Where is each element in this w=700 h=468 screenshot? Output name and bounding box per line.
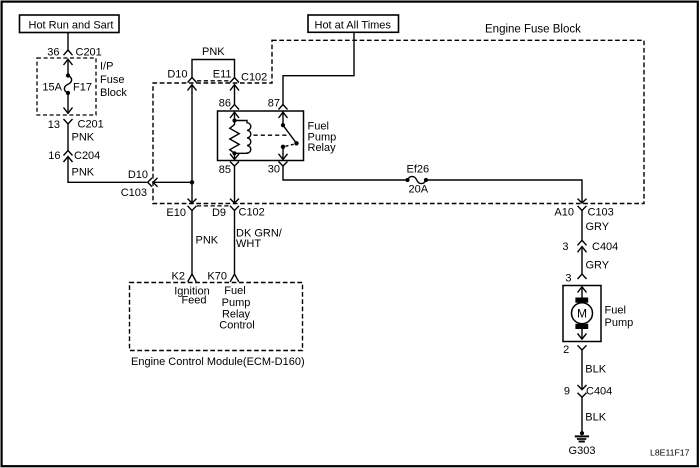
svg-text:D10: D10 bbox=[167, 69, 187, 81]
svg-text:PNK: PNK bbox=[72, 132, 95, 144]
svg-text:Control: Control bbox=[219, 320, 254, 332]
relay coil resistor zigzag bbox=[230, 121, 239, 154]
svg-text:Fuse: Fuse bbox=[100, 74, 124, 86]
wire PNK to K2 bbox=[192, 211, 219, 274]
svg-text:Pump: Pump bbox=[605, 317, 634, 329]
wire pin 30 down and right to fuse Ef26 bbox=[283, 166, 406, 180]
svg-text:D9: D9 bbox=[212, 207, 226, 219]
svg-text:G303: G303 bbox=[569, 445, 596, 457]
relay coil junction top dot bbox=[232, 118, 236, 122]
svg-text:C103: C103 bbox=[588, 206, 614, 218]
I/P fuse block dashed box bbox=[37, 58, 96, 115]
wire PNK down and right to C103 bbox=[68, 158, 147, 183]
svg-text:Hot Run and Sart: Hot Run and Sart bbox=[29, 20, 114, 32]
ground G303 bbox=[569, 431, 596, 457]
wire fuse to right and down to A10 bbox=[428, 180, 583, 203]
wire D10 vertical down to E10 bbox=[191, 86, 193, 204]
wire DK GRN/WHT to K70 bbox=[235, 211, 283, 274]
svg-text:BLK: BLK bbox=[585, 364, 606, 376]
Engine Fuse Block dashed boundary bbox=[153, 40, 644, 203]
label Fuel Pump bbox=[605, 305, 634, 329]
connector E11 C102 bbox=[213, 69, 268, 91]
ECM pin K70 bbox=[207, 271, 238, 283]
connector A10 C103 bbox=[554, 199, 613, 219]
svg-text:C102: C102 bbox=[241, 72, 267, 84]
ECM dashed box bbox=[130, 283, 303, 351]
ECM pin K2 bbox=[172, 271, 197, 283]
connector 9 C404 bbox=[564, 385, 612, 397]
svg-text:85: 85 bbox=[219, 164, 231, 176]
relay switch bbox=[281, 123, 299, 149]
wire PNK bridge over C102 bbox=[192, 46, 235, 78]
svg-text:M: M bbox=[577, 306, 587, 320]
svg-text:E10: E10 bbox=[166, 207, 186, 219]
svg-text:C201: C201 bbox=[78, 119, 104, 131]
svg-text:GRY: GRY bbox=[586, 221, 610, 233]
svg-text:E11: E11 bbox=[213, 69, 232, 81]
svg-text:Relay: Relay bbox=[222, 309, 251, 321]
svg-text:86: 86 bbox=[219, 98, 231, 110]
svg-text:20A: 20A bbox=[409, 184, 429, 196]
relay coil junction bottom dot bbox=[232, 151, 236, 155]
label I/P Fuse Block bbox=[100, 61, 127, 100]
pump pin 2 bbox=[563, 344, 586, 356]
svg-text:9: 9 bbox=[564, 385, 570, 397]
svg-text:Ef26: Ef26 bbox=[407, 164, 430, 176]
connector D10 C102 bbox=[167, 69, 196, 91]
connector 3 C404 bbox=[562, 240, 618, 253]
svg-text:PNK: PNK bbox=[72, 167, 95, 179]
svg-text:Relay: Relay bbox=[308, 142, 337, 154]
pump pin 3 bbox=[565, 273, 586, 285]
svg-text:C404: C404 bbox=[592, 241, 618, 253]
node Hot Run and Sart box bbox=[20, 15, 120, 33]
svg-text:L8E11F17: L8E11F17 bbox=[650, 447, 690, 457]
wire PNK label bbox=[68, 124, 95, 151]
connector 16 C204 bbox=[48, 150, 100, 162]
svg-text:15A: 15A bbox=[42, 82, 62, 94]
wire GRY bbox=[582, 211, 610, 241]
svg-text:D10: D10 bbox=[128, 169, 148, 181]
junction dot at D10 vertical bbox=[190, 180, 194, 184]
relay pin 85 bbox=[219, 153, 239, 176]
relay pin 87 bbox=[268, 98, 288, 125]
svg-text:Pump: Pump bbox=[222, 297, 251, 309]
label Fuel Pump Relay Control bbox=[219, 285, 254, 332]
connector D10 C103 horizontal bbox=[121, 169, 192, 199]
svg-text:Fuel: Fuel bbox=[224, 285, 245, 297]
svg-text:PNK: PNK bbox=[202, 46, 225, 58]
connector C102 link dashes bottom row bbox=[197, 205, 230, 207]
svg-text:GRY: GRY bbox=[586, 259, 610, 271]
svg-text:K2: K2 bbox=[172, 271, 185, 283]
svg-text:F17: F17 bbox=[73, 82, 92, 94]
svg-text:C103: C103 bbox=[121, 187, 147, 199]
svg-text:87: 87 bbox=[268, 98, 280, 110]
connector 13 C201 bbox=[48, 119, 104, 132]
label Fuel Pump Relay bbox=[308, 121, 337, 154]
relay box U1 bbox=[218, 111, 304, 161]
svg-text:16: 16 bbox=[48, 150, 60, 162]
svg-text:3: 3 bbox=[565, 273, 571, 285]
svg-text:WHT: WHT bbox=[236, 238, 261, 250]
svg-text:K70: K70 bbox=[207, 271, 227, 283]
wire pin 85 down to D9 bbox=[234, 166, 236, 203]
svg-text:13: 13 bbox=[48, 119, 60, 131]
connector 36 C201 bbox=[47, 47, 102, 76]
label Ignition Feed bbox=[174, 286, 209, 307]
wire BLK to ground bbox=[582, 397, 607, 433]
dashed actuation link bbox=[254, 134, 289, 136]
svg-text:I/P: I/P bbox=[100, 61, 113, 73]
svg-text:3: 3 bbox=[562, 241, 568, 253]
relay coil winding bbox=[235, 121, 251, 154]
svg-text:Engine Control Module(ECM-D160: Engine Control Module(ECM-D160) bbox=[131, 356, 305, 368]
fuse Ef26 20A bbox=[405, 164, 429, 196]
relay pin 86 bbox=[219, 98, 239, 121]
svg-text:C404: C404 bbox=[586, 385, 612, 397]
wire Hot at All Times down, left, down to relay 87 bbox=[283, 32, 354, 104]
node Hot at All Times box bbox=[308, 15, 399, 32]
svg-text:C204: C204 bbox=[74, 150, 100, 162]
svg-text:Fuel: Fuel bbox=[605, 305, 626, 317]
svg-text:C102: C102 bbox=[239, 207, 265, 219]
fuel pump box bbox=[563, 286, 601, 342]
wire fuse to connector 13 with down arrow bbox=[64, 93, 73, 113]
svg-text:BLK: BLK bbox=[585, 411, 606, 423]
svg-text:30: 30 bbox=[268, 163, 280, 175]
wire GRY to pump bbox=[582, 248, 610, 275]
svg-text:Engine Fuse Block: Engine Fuse Block bbox=[485, 24, 581, 36]
motor M1 bbox=[572, 287, 593, 339]
connector D9 C102 bbox=[212, 199, 265, 219]
wire from Hot Run box down to connector 36 bbox=[67, 33, 69, 51]
connector E10 C102 bbox=[166, 199, 196, 219]
svg-text:Block: Block bbox=[100, 87, 127, 99]
svg-text:C201: C201 bbox=[76, 47, 102, 59]
relay pin 30 bbox=[268, 148, 288, 175]
svg-text:A10: A10 bbox=[554, 206, 574, 218]
fuse F17 15A bbox=[42, 73, 92, 95]
svg-text:Hot at All Times: Hot at All Times bbox=[315, 20, 392, 32]
wire E11 down to relay pin 86 bbox=[234, 86, 236, 105]
svg-text:36: 36 bbox=[47, 47, 59, 59]
svg-text:2: 2 bbox=[563, 344, 569, 356]
svg-text:PNK: PNK bbox=[196, 235, 219, 247]
connector C102 link dashes top row bbox=[197, 80, 230, 82]
svg-text:Feed: Feed bbox=[181, 295, 206, 307]
wire BLK bbox=[582, 350, 607, 389]
